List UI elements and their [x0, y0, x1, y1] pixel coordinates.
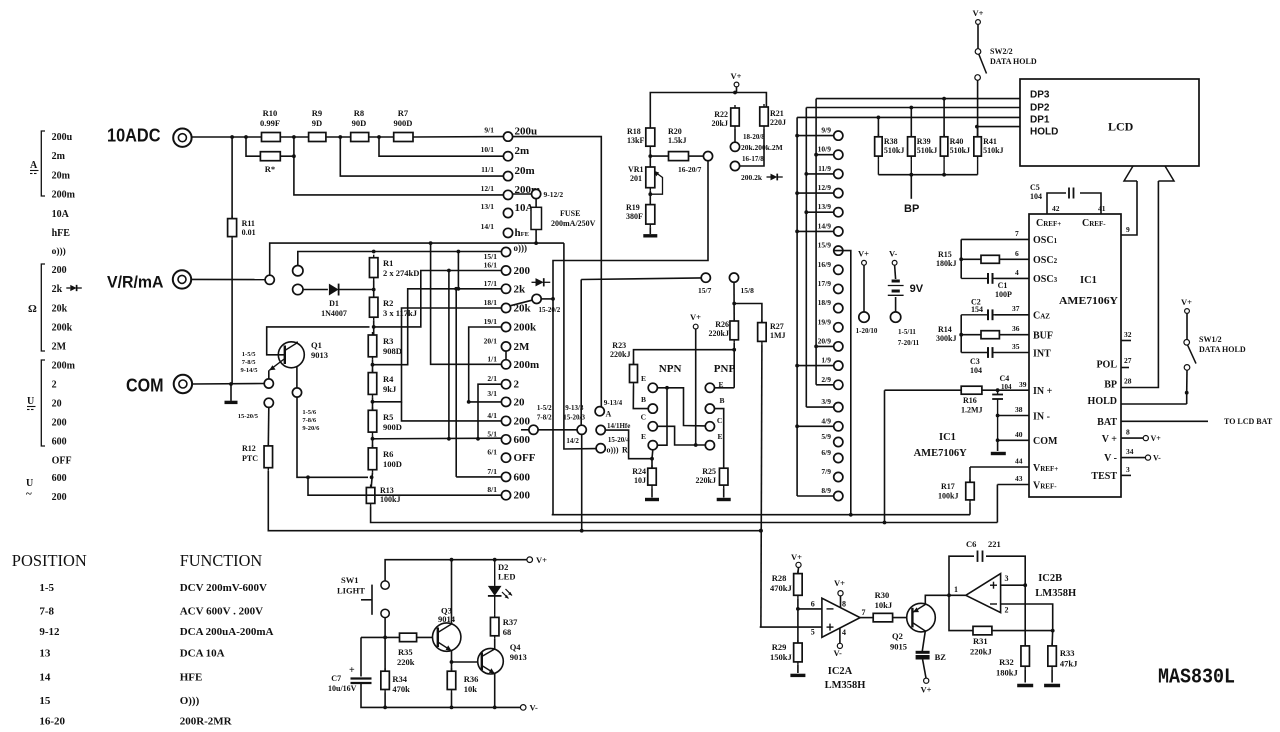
- wire R33 to ground: [1051, 669, 1053, 682]
- svg-text:6/1: 6/1: [487, 448, 497, 457]
- svg-text:154: 154: [971, 305, 983, 314]
- resistor R14 300kJ: [981, 331, 999, 339]
- wire R13 to bus2: [371, 506, 998, 522]
- wire Q3 collector: [451, 560, 453, 624]
- svg-text:19/1: 19/1: [484, 317, 498, 326]
- terminal V/R/mA: [173, 270, 191, 288]
- wire 9-13/3 riser: [580, 280, 582, 426]
- junction R1/R2 node: [372, 288, 376, 292]
- svg-text:180kJ: 180kJ: [996, 668, 1018, 678]
- switch contact 16-20/7: [703, 152, 712, 161]
- wire BZ to V+ circle: [923, 660, 926, 679]
- resistor R30 10kJ: [873, 613, 892, 622]
- svg-text:200k: 200k: [514, 322, 538, 334]
- resistor R27: [758, 320, 767, 345]
- svg-text:9/9: 9/9: [821, 126, 831, 135]
- svg-text:7/9: 7/9: [821, 467, 831, 476]
- svg-text:DCA 200uA-200mA: DCA 200uA-200mA: [180, 626, 274, 638]
- wire R32 riser: [1024, 585, 1026, 646]
- switch contact 16-17/8: [730, 161, 739, 170]
- svg-text:0.01: 0.01: [242, 228, 256, 237]
- wire tap 200m 1/1: [431, 243, 502, 364]
- wire tap 200k 19/1: [469, 327, 502, 402]
- wire 2M to 200m link: [505, 351, 507, 360]
- svg-text:2: 2: [1005, 606, 1009, 615]
- wire VREF+ to R17: [969, 467, 971, 482]
- socket PNP E top: [705, 383, 714, 392]
- svg-text:+: +: [349, 665, 355, 676]
- junction 8/1 tap: [306, 475, 310, 479]
- svg-text:V-: V-: [834, 648, 843, 658]
- wire OSC2: [999, 258, 1029, 260]
- switch contact 11/1: [503, 172, 512, 181]
- junction 4/9 tap: [795, 424, 799, 428]
- svg-text:V +: V +: [1102, 434, 1118, 445]
- switch SW1/2 arm: [1188, 345, 1197, 364]
- wire tap 600 7/1: [456, 476, 501, 478]
- LED D2: [488, 560, 512, 615]
- resistor R38 510kJ: [875, 134, 883, 159]
- switch contact 9-13/4 A: [595, 407, 604, 416]
- svg-text:200u: 200u: [52, 132, 73, 143]
- switch contact 15/8: [729, 273, 738, 282]
- svg-text:4: 4: [1015, 268, 1019, 277]
- switch contact 14/1: [503, 228, 512, 237]
- switch SW2/2 arm: [979, 54, 987, 73]
- resistor R*: [260, 152, 280, 161]
- svg-text:R18: R18: [627, 127, 641, 136]
- svg-text:47kJ: 47kJ: [1060, 659, 1078, 669]
- wire tap 8/1: [308, 477, 501, 495]
- switch contact 18/1: [501, 303, 510, 312]
- wire DP3 drop: [815, 99, 817, 385]
- wire CAZ: [995, 314, 1029, 316]
- svg-text:16/1: 16/1: [484, 261, 498, 270]
- wire V- pin stub: [1121, 457, 1145, 459]
- socket NPN C: [648, 422, 657, 431]
- svg-text:180kJ: 180kJ: [936, 259, 956, 268]
- wire V+ to SW1/2: [1186, 313, 1188, 339]
- wire R21 to 16-17/8: [740, 129, 764, 166]
- wire pin 9 stub: [1121, 181, 1137, 235]
- junction R36 bottom: [450, 706, 454, 710]
- svg-text:43: 43: [1015, 474, 1023, 483]
- svg-text:20m: 20m: [52, 170, 71, 181]
- svg-text:600: 600: [514, 434, 531, 446]
- svg-text:TO LCD BAT: TO LCD BAT: [1224, 417, 1273, 426]
- junction o))) drop top: [457, 250, 461, 254]
- switch contact 4/9: [834, 422, 843, 431]
- resistor R23: [630, 362, 638, 386]
- svg-text:1.2MJ: 1.2MJ: [961, 406, 983, 415]
- wire IN+ line: [885, 389, 962, 391]
- resistor R18: [646, 125, 655, 149]
- switch SW1/2 top contact: [1184, 340, 1190, 346]
- wire VREF-: [997, 484, 1029, 486]
- op-amp IC2A triangle: [822, 598, 860, 637]
- wire R28 to R29: [797, 598, 799, 643]
- svg-text:R6: R6: [383, 449, 393, 459]
- net circle V+ IC2A: [838, 591, 843, 596]
- net circle V- bottom rail: [520, 705, 526, 711]
- wire DP2 drop: [805, 108, 807, 408]
- svg-text:DCV 200mV-600V: DCV 200mV-600V: [180, 582, 267, 594]
- svg-text:COM: COM: [126, 376, 164, 396]
- svg-text:PTC: PTC: [242, 454, 258, 463]
- svg-text:C3: C3: [970, 357, 980, 366]
- svg-text:7-8/6: 7-8/6: [302, 417, 316, 424]
- svg-text:600: 600: [514, 471, 531, 483]
- capacitor C4 104: [992, 390, 1003, 440]
- junction R24 top: [650, 457, 654, 461]
- svg-text:7/1: 7/1: [487, 467, 497, 476]
- wire R9 to R8: [326, 136, 351, 138]
- switch contact 12/9: [834, 189, 843, 198]
- wire Q3 emitter: [451, 651, 453, 671]
- socket NPN E top: [648, 383, 657, 392]
- wire V+ pin stub: [1121, 437, 1143, 439]
- svg-text:200R-2MR: 200R-2MR: [180, 716, 233, 728]
- net circle V+ SW2/2: [976, 20, 981, 25]
- svg-text:27: 27: [1124, 356, 1132, 365]
- switch contact 17/1: [501, 284, 510, 293]
- junction 19/1 drop: [467, 400, 471, 404]
- svg-text:DP2: DP2: [1030, 103, 1050, 114]
- junction NPN Etop link: [665, 386, 669, 390]
- resistor R28 470kJ: [794, 571, 803, 599]
- svg-text:2k: 2k: [514, 283, 527, 295]
- junction IN+ bus2: [883, 521, 887, 525]
- wire SW1/2 drop: [1186, 393, 1188, 404]
- svg-text:1-5: 1-5: [39, 582, 54, 594]
- svg-text:IC2A: IC2A: [828, 666, 853, 677]
- svg-text:R29: R29: [772, 642, 787, 652]
- svg-text:MAS830L: MAS830L: [1158, 667, 1235, 690]
- wire DP1 line: [797, 116, 1020, 118]
- wire tap o))) drop: [457, 252, 459, 289]
- wire NPN Etop to PNP C: [657, 388, 705, 426]
- junction R6/R13 node: [370, 475, 374, 479]
- wire R8 to R7: [369, 136, 394, 138]
- resistor R11: [228, 216, 237, 240]
- wire V+ to R28: [797, 568, 800, 574]
- svg-text:18-20/8: 18-20/8: [743, 133, 765, 141]
- wire long tap 2k-line: [455, 289, 457, 477]
- svg-text:42: 42: [1052, 204, 1060, 213]
- svg-text:600: 600: [52, 436, 67, 447]
- svg-text:10/9: 10/9: [818, 145, 832, 154]
- wire V+ hfe line: [695, 329, 697, 445]
- wire C7 to bottom rail: [361, 683, 520, 707]
- svg-text:10k: 10k: [464, 684, 478, 694]
- wire Q1 base: [267, 327, 370, 355]
- junction 11/9 tap: [804, 172, 808, 176]
- junction COM/R11 ground: [229, 382, 233, 386]
- svg-text:220k: 220k: [397, 657, 415, 667]
- svg-text:68: 68: [503, 627, 512, 637]
- svg-text:201: 201: [630, 174, 642, 183]
- svg-text:11/1: 11/1: [481, 165, 494, 174]
- svg-text:100P: 100P: [995, 290, 1012, 299]
- resistor R2: [369, 294, 378, 320]
- wire 9-12/2 to fuse: [535, 199, 537, 208]
- junction 15/8 branch: [732, 302, 736, 306]
- diode D1 1N4007: [329, 284, 339, 296]
- wire R11 vertical: [231, 137, 233, 219]
- net circle V+ below BZ: [924, 678, 929, 683]
- IC U1 AME7106Y box: [1029, 214, 1121, 497]
- wire 15/8 to R26: [733, 282, 735, 321]
- svg-text:20k: 20k: [52, 304, 68, 315]
- svg-text:5/1: 5/1: [487, 429, 497, 438]
- switch contact 1-5/2 7-8/2: [529, 425, 538, 434]
- resistor R24: [648, 465, 657, 488]
- switch contact 10/1: [503, 152, 512, 161]
- wire inverting input: [798, 608, 822, 610]
- svg-text:R39: R39: [917, 137, 931, 146]
- svg-text:V+: V+: [921, 685, 932, 695]
- capacitor C7 10u/16V: [349, 665, 372, 683]
- switch contact 17/9: [834, 284, 843, 293]
- junction R31/R33 node: [1051, 629, 1055, 633]
- svg-text:2/9: 2/9: [821, 375, 831, 384]
- svg-text:B: B: [720, 396, 725, 405]
- wire R3 to R4: [372, 360, 374, 373]
- svg-text:5: 5: [811, 628, 815, 637]
- wire R11 to COM node: [231, 240, 233, 384]
- svg-text:14/9: 14/9: [818, 221, 832, 230]
- wire 1-5/2 stub left: [521, 429, 529, 431]
- transistor Q2 9015: [907, 603, 936, 632]
- wire R7 to contact 9/1: [413, 136, 503, 138]
- svg-text:ACV 600V . 200V: ACV 600V . 200V: [180, 605, 263, 617]
- svg-text:C: C: [717, 416, 722, 425]
- net circle V+ R28: [796, 562, 801, 567]
- svg-text:15/7: 15/7: [698, 286, 712, 295]
- svg-text:200m: 200m: [52, 189, 76, 200]
- bracket DC-V group: [41, 360, 45, 446]
- svg-text:10J: 10J: [634, 476, 646, 485]
- svg-text:0.99F: 0.99F: [260, 118, 280, 128]
- junction long tap top: [447, 269, 451, 273]
- switch contact 9/1: [503, 132, 512, 141]
- wire BP line to arrow: [1121, 181, 1158, 388]
- junction R3/R4 node: [371, 363, 375, 367]
- svg-text:16-20/7: 16-20/7: [678, 165, 702, 174]
- svg-text:7-8: 7-8: [39, 605, 54, 617]
- svg-text:2k: 2k: [52, 284, 63, 295]
- svg-text:7: 7: [1015, 229, 1019, 238]
- wire R25 to ground: [723, 488, 725, 497]
- wire V+ rail to R18/R22/R21: [650, 93, 766, 129]
- svg-text:V-: V-: [889, 249, 898, 259]
- svg-text:R4: R4: [383, 374, 394, 384]
- svg-text:104: 104: [970, 366, 982, 375]
- LCD display box: [1020, 79, 1199, 166]
- svg-text:200mA/250V: 200mA/250V: [551, 219, 596, 228]
- svg-text:R2: R2: [383, 298, 393, 308]
- svg-text:R22: R22: [714, 110, 728, 119]
- svg-text:90D: 90D: [352, 118, 367, 128]
- svg-text:NPN: NPN: [659, 363, 682, 375]
- svg-text:200: 200: [52, 492, 67, 503]
- svg-text:19/9: 19/9: [818, 317, 832, 326]
- wire tap 12/1: [294, 156, 504, 195]
- svg-text:V/R/mA: V/R/mA: [107, 273, 164, 292]
- resistor R37 68: [490, 614, 499, 638]
- svg-text:C: C: [641, 413, 646, 422]
- junction Q4 emitter rail: [493, 706, 497, 710]
- svg-text:13kF: 13kF: [627, 136, 644, 145]
- svg-text:9013: 9013: [311, 350, 328, 360]
- wire BUF: [999, 334, 1029, 336]
- switch contact 19/9: [834, 323, 843, 332]
- wire C5 right stub: [1080, 193, 1101, 214]
- junction feedback node: [947, 593, 951, 597]
- svg-text:DCA 10A: DCA 10A: [180, 648, 225, 660]
- switch contact lower (to D1): [293, 284, 303, 294]
- junction COM C4: [996, 438, 1000, 442]
- svg-text:Q4: Q4: [510, 642, 522, 652]
- switch SW1/2 bottom contact: [1184, 365, 1190, 371]
- svg-text:15-20/4: 15-20/4: [608, 436, 630, 444]
- switch contact 20/1: [501, 342, 510, 351]
- svg-text:V -: V -: [1104, 453, 1117, 464]
- op-amp IC2B triangle: [966, 574, 1001, 613]
- wire R36 to bottom rail: [451, 693, 453, 708]
- switch contact 4/1: [501, 416, 510, 425]
- wire R23 to NPN B: [633, 386, 648, 409]
- svg-text:R41: R41: [983, 137, 997, 146]
- resistor R12: [264, 443, 273, 471]
- svg-text:7: 7: [862, 608, 866, 617]
- svg-text:Q2: Q2: [892, 631, 903, 641]
- wire branch to R27: [734, 304, 762, 323]
- svg-text:V+: V+: [1181, 297, 1192, 307]
- svg-text:7-20/11: 7-20/11: [898, 339, 920, 347]
- svg-text:R14: R14: [938, 325, 952, 334]
- switch contact 5/9: [834, 437, 843, 446]
- switch contact 1/9: [834, 361, 843, 370]
- wire R1 to R2: [373, 281, 375, 298]
- wire battery bottom lead: [895, 297, 897, 312]
- resistor R13: [366, 485, 375, 507]
- svg-text:2/1: 2/1: [487, 374, 497, 383]
- svg-text:221: 221: [988, 539, 1001, 549]
- switch SW1 LIGHT: [361, 581, 389, 618]
- svg-text:R5: R5: [383, 412, 393, 422]
- net circle V- IC2A: [837, 643, 842, 648]
- svg-text:7-8/2: 7-8/2: [537, 414, 552, 422]
- svg-text:LM358H: LM358H: [825, 680, 866, 691]
- svg-text:2: 2: [514, 379, 520, 391]
- transistor Q1 9013: [269, 342, 304, 371]
- svg-text:IN +: IN +: [1033, 386, 1053, 397]
- net circle battery top: [892, 260, 897, 265]
- svg-text:9/1: 9/1: [484, 126, 494, 135]
- wire noninverting input: [760, 626, 822, 628]
- junction 14/9 tap: [795, 230, 799, 234]
- svg-text:CREF-: CREF-: [1082, 218, 1106, 229]
- wire NPN C to PNP E: [657, 426, 705, 445]
- junction IN- C4: [996, 414, 1000, 418]
- switch contact 14/9: [834, 227, 843, 236]
- wire R35 to Q3 base: [417, 636, 438, 638]
- wire 16-20/7 to bus1: [552, 161, 708, 515]
- resistor R5: [368, 407, 377, 435]
- wire Q4 emitter to rail: [494, 674, 496, 708]
- svg-text:R40: R40: [950, 137, 964, 146]
- svg-text:R34: R34: [392, 674, 407, 684]
- resistor R3: [368, 332, 377, 360]
- resistor R10: [262, 133, 281, 142]
- resistor R40 510kJ: [940, 134, 948, 159]
- ground below R24: [645, 498, 659, 501]
- svg-text:100D: 100D: [383, 459, 402, 469]
- wire R19 to ground: [649, 227, 651, 234]
- bracket ohm group: [41, 264, 45, 351]
- junction fuse/input line: [534, 241, 538, 245]
- wire R17 to bus1: [969, 503, 971, 515]
- resistor R16 1.2MJ: [961, 386, 982, 394]
- svg-text:12/1: 12/1: [481, 184, 495, 193]
- svg-text:R9: R9: [312, 108, 322, 118]
- svg-text:100kJ: 100kJ: [380, 495, 400, 504]
- wire tap 200V 4/1: [402, 402, 502, 421]
- svg-text:9V: 9V: [910, 283, 924, 295]
- switch contact 1-5/11 7-20/11: [890, 312, 900, 322]
- svg-text:4/1: 4/1: [487, 411, 497, 420]
- wire to R* left: [246, 137, 260, 156]
- junction HOLD/SW2 line: [975, 125, 979, 129]
- wire BP stem: [910, 175, 912, 199]
- svg-text:OSC2: OSC2: [1033, 255, 1058, 266]
- transistor Q4 9013: [478, 648, 504, 674]
- svg-text:D2: D2: [498, 562, 508, 572]
- switch contact 6/9: [834, 453, 843, 462]
- svg-text:o))): o))): [514, 243, 528, 253]
- svg-text:POSITION: POSITION: [12, 551, 87, 570]
- svg-text:C4: C4: [1000, 374, 1010, 383]
- junction R8/R7 node: [377, 135, 381, 139]
- transistor Q3 9014: [433, 623, 461, 651]
- wire DP2 line: [806, 107, 1020, 109]
- wire R38-R41 bottom rail: [878, 174, 977, 176]
- svg-text:100kJ: 100kJ: [938, 492, 958, 501]
- svg-text:13: 13: [39, 648, 51, 660]
- wire R20 left: [650, 155, 668, 157]
- svg-text:104: 104: [1001, 383, 1012, 391]
- wire R* right: [280, 137, 294, 156]
- svg-text:R19: R19: [626, 203, 640, 212]
- svg-text:R8: R8: [354, 108, 364, 118]
- ground below R29: [790, 674, 805, 677]
- wire R32 to ground: [1024, 669, 1026, 682]
- junction R23/R26 line: [732, 348, 736, 352]
- wire 15/7 line: [581, 278, 701, 280]
- junction riser R14: [959, 333, 963, 337]
- junction Q3 collector rail: [450, 558, 454, 562]
- svg-text:B: B: [641, 395, 646, 404]
- svg-text:IC2B: IC2B: [1038, 573, 1062, 584]
- junction R2/R3 node: [372, 325, 376, 329]
- svg-text:15: 15: [39, 695, 51, 707]
- svg-text:E: E: [641, 374, 646, 383]
- wire R31 loop: [949, 595, 973, 630]
- wire bus1: [553, 514, 970, 516]
- svg-text:A: A: [30, 160, 38, 171]
- symbol U~ (AC volts): [26, 478, 33, 500]
